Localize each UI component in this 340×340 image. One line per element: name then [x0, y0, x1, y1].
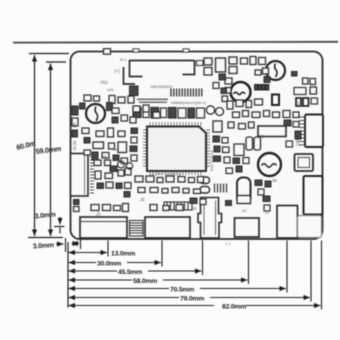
resistor R8: [225, 78, 232, 84]
label 60.0mm: [15, 139, 36, 152]
resistor R48: [311, 98, 318, 104]
dimension line 60.0mm vertical: [34, 55, 36, 236]
capacitor C4: [229, 67, 237, 74]
bottom dimension left anchor line: [67, 242, 69, 308]
capacitor C33: [166, 176, 174, 182]
top separator line: [13, 41, 338, 44]
resistor R46: [293, 122, 299, 128]
capacitor C55: [92, 152, 98, 160]
capacitor C9: [303, 78, 309, 84]
IC U4: [216, 58, 226, 72]
inductor L1 circle: [86, 104, 105, 123]
dimension line 79.0mm: [69, 297, 180, 299]
capacitor C32: [157, 178, 163, 183]
svg-text:88: 88: [259, 134, 264, 139]
IC U1 pin ring: [143, 122, 210, 175]
extension line to 70.5mm: [286, 241, 288, 293]
capacitor C35: [138, 188, 145, 193]
resistor R30: [128, 96, 134, 103]
svg-text:13.0mm: 13.0mm: [111, 251, 135, 258]
board edge tab right: [183, 49, 189, 52]
capacitor C36: [162, 189, 168, 194]
IC U2: [258, 126, 286, 137]
connector J8 right edge upper: [305, 115, 323, 148]
capacitor C16: [283, 111, 290, 118]
mini dimension 3.0mm arrows: [72, 243, 80, 245]
capacitor C44: [153, 112, 160, 118]
capacitor C54: [84, 138, 90, 144]
resistor R53: [190, 198, 197, 204]
svg-text:4K: 4K: [113, 147, 118, 152]
ferrite FB1: [130, 86, 139, 96]
label 3.0mm (connector height): [34, 211, 56, 220]
capacitor C46 round: [216, 108, 224, 116]
capacitor C57: [110, 166, 117, 172]
resistor R42: [233, 158, 240, 164]
capacitor C31: [123, 204, 129, 212]
dimension 59.0mm extension line top: [46, 61, 66, 63]
capacitor C75: [107, 103, 113, 111]
capacitor C67: [258, 189, 264, 195]
silkscreen text left edge: [72, 140, 77, 150]
connector CN2 bottom: [145, 217, 190, 238]
svg-text:c4 c5 r7 1c2 88 b2: c4 c5 r7 1c2 88 b2: [150, 173, 181, 177]
resistor R50: [221, 88, 227, 94]
extension line to 30.0mm: [161, 241, 163, 267]
capacitor C17: [228, 122, 234, 128]
resistor R20: [103, 205, 111, 211]
capacitor C56: [113, 155, 119, 161]
capacitor C28: [95, 171, 101, 179]
svg-text:J5: J5: [140, 197, 145, 202]
resistor R23: [178, 177, 185, 183]
resistor R54: [226, 201, 232, 206]
extension line to 45.5mm: [202, 241, 204, 276]
capacitor C58: [131, 128, 138, 134]
dimension line 45.5mm: [69, 270, 118, 272]
resistor R58: [74, 207, 80, 212]
capacitor C66: [226, 168, 233, 174]
connector CN6 bottom right: [298, 216, 322, 238]
capacitor C70: [310, 87, 317, 94]
resistor R52: [121, 115, 128, 121]
capacitor C20a: [200, 177, 210, 184]
svg-text:J4: J4: [192, 206, 197, 211]
ferrite FB2: [292, 72, 298, 77]
resistor R18: [105, 173, 113, 179]
capacitor C24: [96, 131, 104, 137]
svg-text:6+1: 6+1: [120, 57, 128, 62]
resistor R36: [102, 153, 109, 159]
capacitor C65: [243, 158, 249, 164]
capacitor C12: [236, 100, 243, 107]
resistor R10: [246, 101, 252, 108]
svg-text:3.0mm: 3.0mm: [34, 211, 56, 220]
resistor R39: [131, 137, 137, 143]
inductor L3 circle: [266, 61, 285, 80]
IC U1 body: [147, 127, 206, 172]
capacitor C60: [131, 155, 137, 161]
connector CN3 inner wall right: [215, 201, 217, 236]
svg-text:60.0m: 60.0m: [15, 139, 36, 152]
resistor R49: [264, 77, 270, 83]
capacitor C25: [108, 128, 114, 137]
leader stub below tick: [59, 228, 61, 234]
IC U3: [234, 144, 244, 156]
board surface speckle: [0, 0, 1, 1]
capacitor C27: [105, 160, 111, 166]
test point TP4: [126, 163, 132, 169]
dimension line 82.0mm: [69, 305, 215, 307]
leader arrow 3.0mm right: [56, 243, 64, 245]
svg-text:HBBB(Heez2)(0h.z): HBBB(Heez2)(0h.z): [171, 100, 207, 105]
resistor R7: [263, 68, 269, 74]
dimension line 70.5mm: [69, 288, 170, 290]
capacitor C73: [219, 74, 226, 80]
connector J2 pin comb: [90, 157, 94, 193]
resistor R56: [106, 182, 113, 188]
header JP2 striped: [130, 221, 144, 237]
svg-text:m.3c: m.3c: [72, 140, 77, 150]
IC U6: [118, 142, 127, 153]
connector CN3 inner wall: [203, 201, 205, 236]
svg-text:u31: u31: [107, 87, 114, 92]
header pad row striped: [164, 202, 192, 210]
capacitor C13: [233, 112, 240, 118]
capacitor C72: [296, 98, 301, 106]
resistor R11: [255, 99, 263, 105]
dimension line 59.0mm vertical: [50, 64, 52, 237]
solder pad dots row: [137, 99, 168, 104]
svg-text:1 2: 1 2: [225, 241, 231, 246]
connector CN2 inner line: [146, 221, 189, 223]
capacitor C41: [109, 96, 115, 104]
capacitor C26: [109, 143, 115, 149]
capacitor C53 left edge: [72, 118, 78, 126]
capacitor C38: [163, 206, 169, 211]
capacitor C51 bold: [272, 95, 279, 106]
capacitor C62: [214, 146, 220, 152]
resistor R31: [143, 105, 149, 112]
connector CN1 inner line: [81, 221, 126, 223]
svg-text:1B: 1B: [72, 123, 77, 128]
capacitor C83: [116, 183, 122, 189]
resistor R19: [91, 205, 99, 211]
resistor R25: [150, 188, 158, 193]
resistor R13: [264, 111, 270, 117]
extension line to 13.0mm: [107, 241, 109, 257]
svg-text:1887898518: 1887898518: [150, 84, 173, 89]
extension line to 82.0mm: [321, 241, 323, 310]
capacitor C85: [74, 200, 80, 205]
svg-text:01: 01: [296, 102, 302, 108]
svg-text:e2: e2: [242, 208, 247, 213]
svg-text:3.0mm: 3.0mm: [33, 242, 54, 250]
capacitor C1: [204, 58, 212, 65]
resistor R16: [118, 131, 125, 137]
resistor R32: [130, 117, 136, 123]
resistor R14: [293, 112, 299, 118]
svg-text:8117E0S2A: 8117E0S2A: [209, 150, 214, 171]
svg-text:79.0mm: 79.0mm: [180, 296, 204, 303]
capacitor C30: [114, 206, 121, 211]
svg-text:30.0mm: 30.0mm: [97, 261, 121, 268]
svg-text:58.0mm: 58.0mm: [133, 278, 157, 285]
resistor R28: [150, 205, 157, 211]
dimension line 30.0mm: [69, 262, 97, 264]
connector J2 left edge: [71, 154, 89, 197]
silkscreen text C50: [295, 137, 300, 146]
capacitor C42: [118, 97, 125, 103]
IC U7: [213, 121, 222, 132]
capacitor C82: [97, 183, 104, 189]
pad comb small: [215, 184, 227, 193]
resistor R12: [252, 112, 260, 118]
resistor R41: [214, 156, 221, 162]
capacitor C77: [80, 103, 86, 109]
resistor R1: [241, 58, 248, 64]
svg-text:J7: J7: [265, 210, 270, 215]
svg-text:59.0mm: 59.0mm: [35, 144, 61, 156]
capacitor C39: [176, 205, 183, 211]
jumper JP3: [237, 196, 251, 204]
svg-text:(+): (+): [115, 69, 121, 74]
label 3.0mm (edge offset): [33, 242, 54, 250]
capacitor C21: [237, 178, 251, 204]
capacitor C20b: [200, 187, 210, 194]
crystal X1: [104, 49, 111, 55]
capacitor C84: [124, 192, 130, 198]
resistor R33 left edge: [72, 130, 78, 137]
capacitor C29: [118, 170, 124, 176]
inductor L2 circle: [231, 82, 251, 102]
capacitor C11: [227, 101, 233, 109]
diode D2: [294, 88, 306, 95]
resistor R22: [146, 176, 154, 182]
resistor R26: [172, 188, 179, 193]
capacitor C74: [213, 83, 219, 89]
capacitor C23: [254, 137, 261, 150]
resistor array RN2: [255, 85, 269, 91]
connector CN3 bottom tall: [198, 198, 222, 239]
extension tick 3.0mm: [54, 226, 65, 228]
capacitor C69: [295, 131, 301, 139]
test point TP3: [118, 161, 125, 168]
extension line to 79.0mm: [310, 241, 312, 302]
resistor R3: [259, 58, 266, 65]
resistor R43: [236, 166, 242, 172]
silkscreen text left edge 2: [72, 123, 77, 128]
resistor R55: [263, 196, 270, 202]
capacitor C10: [222, 96, 228, 102]
connector CN4 bottom: [235, 218, 260, 237]
capacitor C43: [133, 106, 140, 112]
capacitor C3: [229, 57, 237, 64]
capacitor C14: [243, 111, 249, 117]
inductor L4 circle: [258, 153, 281, 176]
resistor R9: [225, 88, 231, 94]
svg-text:82.0mm: 82.0mm: [222, 304, 246, 311]
connector J1 eDP top: [124, 60, 195, 84]
leader arrow 3.0mm down: [59, 217, 61, 225]
resistor R24: [189, 178, 195, 183]
IC U5: [93, 142, 104, 149]
connector J8 pin comb: [299, 117, 304, 145]
capacitor C76: [112, 117, 118, 123]
capacitor C9b: [310, 79, 316, 85]
switch SW1 right middle: [295, 154, 314, 171]
resistor R2: [250, 57, 256, 65]
capacitor C71: [303, 98, 309, 106]
dimension 60.0mm extension line top: [29, 53, 69, 55]
extension line to 58.0mm: [248, 241, 250, 285]
capacitor C64: [224, 157, 230, 163]
capacitor C15: [273, 112, 280, 118]
svg-text:36: 36: [272, 178, 277, 183]
capacitor C34: [198, 177, 204, 183]
dimension line 58.0mm: [69, 279, 133, 281]
capacitor C37: [183, 189, 189, 194]
resistor R27: [194, 189, 201, 194]
resistor R29: [94, 96, 100, 101]
capacitor C22: [246, 137, 253, 150]
resistor R34: [82, 128, 89, 134]
connector J9 right edge lower: [304, 176, 323, 215]
svg-text:C50: C50: [295, 137, 300, 146]
resistor R40: [222, 138, 228, 144]
resistor array RN1 row: [133, 108, 205, 119]
svg-text:45.5mm: 45.5mm: [118, 269, 142, 276]
svg-text:70.5mm: 70.5mm: [170, 287, 194, 294]
capacitor C59: [130, 146, 137, 152]
pin header comb row: [171, 89, 202, 97]
capacitor C78: [200, 199, 206, 205]
capacitor C2: [204, 68, 212, 76]
resistor R57: [125, 183, 132, 189]
resistor R15: [249, 122, 255, 128]
capacitor C18: [239, 124, 246, 130]
resistor R6: [255, 70, 261, 75]
resistor R51: [112, 108, 119, 114]
resistor R35: [84, 150, 91, 155]
svg-text:3K: 3K: [102, 154, 107, 159]
extension tick connector edge: [80, 239, 82, 249]
svg-text:J3: J3: [96, 212, 101, 217]
resistor R47: [286, 141, 293, 147]
connector CN5 bottom: [277, 206, 298, 239]
resistor R44: [255, 180, 262, 186]
capacitor C63: [223, 147, 230, 153]
connector CN1 bottom: [80, 217, 127, 238]
capacitor C52 left edge: [72, 106, 78, 115]
svg-text:7R2: 7R2: [100, 80, 108, 85]
resistor R21: [135, 176, 143, 182]
capacitor C45 round: [206, 106, 214, 114]
label 59.0mm: [35, 144, 61, 156]
dimension line 13.0mm: [69, 252, 108, 254]
dimension extension line bottom-left: [28, 237, 63, 239]
board edge tab left: [133, 49, 139, 52]
capacitor C40: [84, 95, 91, 101]
resistor R38: [125, 168, 131, 175]
capacitor C61: [213, 136, 220, 142]
resistor R37: [121, 158, 128, 164]
silkscreen text right of IC: [209, 150, 214, 171]
resistor R17: [94, 160, 101, 166]
resistor R45: [265, 181, 271, 187]
capacitor C68: [284, 120, 291, 126]
PCB board outline: [71, 52, 323, 240]
connector J1 latch right: [197, 61, 204, 66]
extension tick at left edge: [65, 238, 67, 252]
capacitor C80: [264, 205, 270, 211]
